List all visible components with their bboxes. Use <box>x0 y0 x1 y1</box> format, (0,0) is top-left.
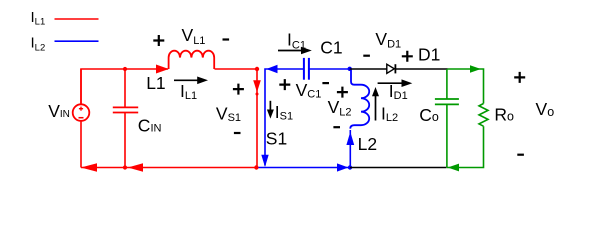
svg-text:D1: D1 <box>418 44 440 64</box>
svg-text:L2: L2 <box>358 134 377 154</box>
voltage source VIN <box>73 104 90 121</box>
svg-text:VD1: VD1 <box>375 29 401 51</box>
wire blue C1 to L2 node <box>309 68 350 70</box>
svg-text:Ro: Ro <box>494 104 514 124</box>
switch S1 blue branch wire <box>265 69 304 166</box>
svg-text:CIN: CIN <box>138 116 162 136</box>
svg-text:IL2: IL2 <box>381 104 398 124</box>
label VL2 minus <box>333 126 340 128</box>
legend IL2 label <box>31 35 46 54</box>
blue arrow up on L2 branch <box>346 132 354 145</box>
node S1 bottom junction <box>254 165 258 169</box>
switch S1 red branch wire <box>256 69 258 168</box>
red bottom arrow left <box>81 163 97 172</box>
legend IL2 line <box>55 40 99 42</box>
svg-text:IL2: IL2 <box>31 35 46 54</box>
inductor L2 <box>350 69 369 129</box>
node L1-S1 junction <box>255 67 259 71</box>
red bottom arrow mid <box>128 163 143 172</box>
red arrow on S1 branch <box>253 80 261 92</box>
label IC1 current arrow <box>278 47 312 55</box>
label Vo plus <box>514 72 525 83</box>
resistor Ro <box>479 104 488 127</box>
wire red top rail <box>81 69 168 121</box>
capacitor CIN branch wire upper <box>124 69 126 107</box>
label VL1 plus <box>153 35 164 46</box>
red current arrow before L1 <box>156 65 169 74</box>
wire black bottom <box>350 167 447 169</box>
node CIN top junction <box>123 67 127 71</box>
label VC1 minus <box>322 82 329 84</box>
svg-text:C1: C1 <box>320 38 342 58</box>
node C1-L2-D1 junction <box>348 67 352 71</box>
wire red left rail upper <box>80 69 82 104</box>
svg-text:IS1: IS1 <box>275 102 293 123</box>
svg-text:IL1: IL1 <box>180 81 197 102</box>
green arrow right on top <box>470 65 481 73</box>
capacitor Co branch lower <box>446 105 448 168</box>
red dot below arrow <box>256 93 259 96</box>
label VD1 plus <box>402 51 413 62</box>
label IL1 current arrow <box>174 77 208 85</box>
blue arrow S1 bottom <box>261 155 268 167</box>
inductor L1 <box>169 51 215 69</box>
legend IL1 label <box>31 9 46 28</box>
capacitor Co <box>435 99 459 104</box>
label VL2 plus <box>337 87 348 98</box>
wire blue bottom <box>259 167 351 169</box>
label VS1 plus <box>233 84 244 95</box>
capacitor CIN <box>113 107 138 112</box>
label VD1 minus <box>363 55 370 57</box>
diode D1 <box>387 64 396 73</box>
wire green top <box>448 69 484 104</box>
svg-text:S1: S1 <box>266 129 287 149</box>
svg-text:Vo: Vo <box>536 99 555 119</box>
svg-text:VS1: VS1 <box>216 103 241 124</box>
label VL1 minus <box>223 38 230 40</box>
svg-text:IL1: IL1 <box>31 9 46 28</box>
capacitor CIN branch wire lower <box>124 113 126 168</box>
svg-text:Co: Co <box>419 105 439 125</box>
label IS1 current arrow <box>267 101 274 119</box>
capacitor C1 <box>304 58 309 80</box>
label IL2 current arrow <box>372 87 379 121</box>
node CIN bottom junction <box>123 165 127 169</box>
label ID1 current arrow <box>378 79 413 87</box>
blue bottom arrow right <box>337 163 348 171</box>
wire black node to diode <box>350 68 387 70</box>
label Vo minus <box>517 154 524 156</box>
svg-text:VC1: VC1 <box>296 80 322 100</box>
svg-text:L1: L1 <box>146 73 165 93</box>
blue arrow into S1 top <box>266 65 277 73</box>
wire blue L2 lower <box>349 130 351 168</box>
wire red top rail right of L1 <box>215 68 258 70</box>
node L2 bottom junction <box>348 165 352 169</box>
green arrow left on bottom <box>448 164 459 172</box>
wire red bottom rail <box>81 167 257 169</box>
wire red left rail lower <box>80 121 82 168</box>
legend IL1 line <box>55 18 99 20</box>
capacitor Co branch upper <box>446 69 448 99</box>
wire green right lower <box>447 126 484 167</box>
label VS1 minus <box>234 132 241 134</box>
svg-text:VL1: VL1 <box>182 25 206 47</box>
wire black diode to output <box>395 68 447 70</box>
svg-text:VIN: VIN <box>48 101 70 121</box>
svg-text:VL2: VL2 <box>328 97 352 119</box>
label VC1 plus <box>279 79 290 90</box>
